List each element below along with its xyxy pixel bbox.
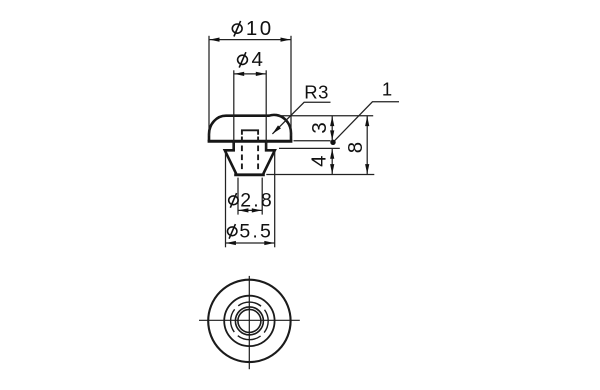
- svg-text:1: 1: [382, 79, 392, 100]
- svg-text:5.5: 5.5: [239, 220, 273, 242]
- svg-text:2.8: 2.8: [240, 189, 274, 211]
- svg-text:R3: R3: [304, 82, 329, 103]
- svg-text:4: 4: [252, 48, 263, 71]
- svg-text:8: 8: [344, 142, 367, 153]
- svg-text:3: 3: [308, 122, 331, 133]
- svg-text:4: 4: [307, 155, 330, 166]
- svg-text:10: 10: [246, 17, 274, 40]
